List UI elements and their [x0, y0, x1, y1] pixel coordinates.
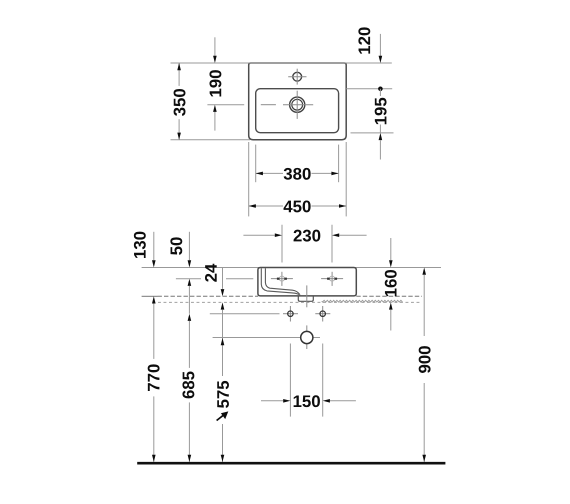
dimension line 770: [153, 304, 155, 359]
dimension line 190 upper tail: [214, 37, 216, 56]
dimension line 685 upper tail: [188, 286, 190, 314]
arrow 350 top: [177, 63, 181, 70]
label 770: [148, 364, 160, 391]
extension line 450 right: [345, 142, 347, 216]
inner basin rim (top view): [256, 89, 339, 133]
extension line 450 left: [248, 142, 250, 216]
arrow 380 left: [256, 172, 263, 176]
dimension line 195 upper: [379, 89, 381, 96]
arrow 450 left: [249, 204, 256, 208]
tap hole crosshair vertical: [296, 69, 298, 85]
label 575: [217, 381, 229, 408]
dimension line 120 tail: [379, 34, 381, 56]
wavy wall seal line: [322, 300, 403, 302]
label 350: [174, 89, 186, 116]
label 120: [358, 27, 370, 53]
arrow 50 bottom: [188, 279, 192, 286]
label 380: [284, 168, 311, 180]
label 190: [209, 70, 221, 96]
label 150: [294, 395, 320, 407]
drain centreline stub left: [261, 104, 276, 106]
arrow 150 right: [323, 399, 330, 403]
arrow 50 top: [188, 260, 192, 267]
fixing bolt left crosshair: [283, 313, 298, 315]
rear edge extension line: [171, 62, 392, 64]
arrow 770 floor: [152, 455, 156, 462]
dimension line 575 lower: [222, 424, 224, 462]
label 50: [170, 237, 182, 254]
dimension line 150 left tail: [261, 400, 283, 402]
inner rim front extension line (right): [351, 132, 394, 134]
basin interior profile outer line: [261, 268, 300, 295]
basin bottom level dashed line right: [356, 295, 422, 297]
dimension line 195 tail below: [379, 140, 381, 159]
tap hole mark right crosshair: [321, 278, 343, 280]
arrow 190 top: [213, 56, 217, 63]
tap hole mark right circle: [330, 276, 335, 281]
dimension line 50 tail: [188, 232, 190, 260]
dimension line 575 upper: [222, 310, 224, 376]
front edge extension line (left): [171, 139, 251, 141]
tap hole circle (top view): [293, 72, 302, 81]
arrow 160 top: [389, 260, 393, 267]
label 230: [294, 230, 321, 242]
dimension line 380: [256, 172, 283, 174]
extension line 150 right: [322, 344, 324, 417]
siphon centreline vertical: [306, 325, 308, 349]
arrow 120: [379, 56, 383, 63]
basin interior profile inner line: [265, 268, 299, 294]
fixing bolt right circle: [320, 311, 325, 316]
arrow 450 right: [339, 204, 346, 208]
extension line 230 right: [331, 225, 333, 263]
arrow 350 bottom: [177, 133, 181, 140]
arrow 24 bottom: [221, 302, 225, 309]
label 160: [385, 270, 397, 296]
arrow 900 top: [422, 268, 426, 275]
dimension line 350: [178, 63, 180, 86]
dimension line 150 right tail: [330, 400, 356, 402]
drain outlet box (front elevation): [298, 296, 313, 301]
inner rim rear extension line (right): [346, 88, 392, 90]
extension line 230 left: [281, 225, 283, 263]
arrow 230 right: [332, 233, 339, 237]
dimension line 24 upper tail: [222, 268, 224, 289]
label 900: [419, 346, 431, 373]
drain inner circle (top view): [292, 99, 303, 110]
dimension line 900: [423, 275, 425, 336]
drain outer circle (top view): [290, 97, 305, 112]
label 195: [375, 98, 387, 125]
basin bottom level dashed line left: [158, 295, 259, 297]
arrow 685 top: [188, 314, 192, 321]
adjustability diagonal arrow: [217, 414, 226, 421]
dimension line 195 lower: [379, 125, 381, 133]
arrow 190 bottom: [213, 105, 217, 112]
floor line: [137, 462, 445, 465]
arrow 24 top: [221, 289, 225, 296]
dimension line 190 lower tail: [214, 112, 216, 131]
tap hole mark left crosshair: [271, 278, 293, 280]
drain crosshair vertical: [296, 91, 298, 119]
dimension line 230 right tail: [339, 234, 366, 236]
tap hole crosshair horizontal: [288, 76, 306, 78]
arrow 380 right: [331, 172, 338, 176]
dimension line 160 lower tail: [390, 310, 392, 331]
arrow 130 top: [152, 260, 156, 267]
dimension point dot 195: [378, 87, 383, 92]
drain centre extension line (left): [207, 104, 244, 106]
arrow 230 left: [275, 233, 282, 237]
dimension line 685: [188, 321, 190, 368]
siphon centreline horizontal: [213, 337, 320, 339]
dimension line 450: [249, 205, 283, 207]
fixing bolt right crosshair: [315, 313, 330, 315]
dimension line 230 left tail: [243, 234, 274, 236]
basin top level extension line: [142, 267, 441, 269]
arrow 575 top: [221, 338, 225, 345]
arrow 575 floor: [221, 455, 225, 462]
arrow 770 top: [152, 296, 156, 303]
lower dashed line: [158, 301, 422, 303]
arrow 900 floor: [422, 455, 426, 462]
siphon outlet circle: [301, 331, 313, 343]
washbasin body (front elevation): [258, 268, 356, 296]
arrow 685 floor: [188, 455, 192, 462]
arrow 195 bottom: [379, 133, 383, 140]
dimension line 130 tail: [153, 232, 155, 260]
arrow 160 bottom: [389, 302, 393, 309]
drain centreline vertical upper: [306, 285, 308, 307]
label 685: [182, 371, 194, 398]
label 24: [205, 264, 217, 282]
tap hole mark left circle: [279, 276, 284, 281]
drain crosshair horizontal: [283, 104, 313, 106]
extension line 50 bottom: [176, 278, 201, 280]
extension line 380 left: [255, 145, 257, 183]
basin bottom level line solid part: [142, 295, 158, 297]
extension line 150 left: [289, 344, 291, 417]
arrow 150 left: [283, 399, 290, 403]
extension line 685: [210, 313, 280, 315]
washbasin outer rim (top view): [249, 63, 347, 140]
label 450: [284, 200, 311, 212]
label 130: [134, 232, 146, 258]
dimension line 160 upper tail: [390, 238, 392, 260]
fixing bolt left circle: [288, 311, 293, 316]
extension line 380 right: [338, 145, 340, 183]
